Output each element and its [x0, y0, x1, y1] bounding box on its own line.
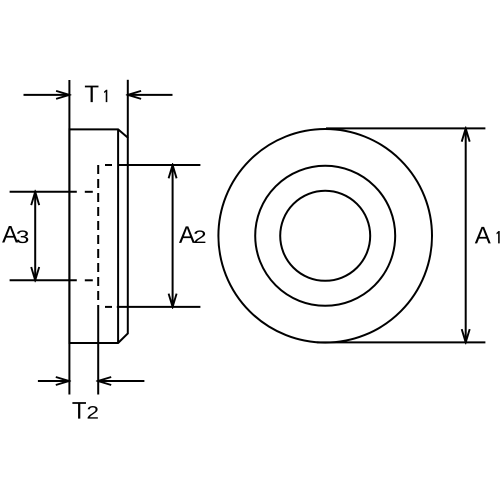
label A2 letter A [179, 226, 195, 243]
dimension A1 vertical double arrow [465, 128, 467, 342]
extension line A1 bottom [317, 341, 486, 343]
wire (left extension line x=69.4, T1 top + T2 bottom) [68, 80, 70, 395]
outer circle (A1) front view [218, 129, 432, 343]
label T2 letter T [72, 402, 86, 419]
dimension T1 right arrow [128, 94, 173, 96]
label T2 subscript 2 [88, 406, 98, 419]
hidden line A2 top dash [105, 164, 112, 166]
extension line A2 bottom (solid part) [117, 306, 201, 308]
label A3 subscript 3 [17, 230, 29, 243]
extension line A2 top (solid part) [118, 164, 200, 166]
extension line A1 top [326, 127, 485, 129]
dimension T1 left arrow [24, 94, 70, 96]
dimension T2 right arrow [98, 380, 144, 382]
dimension T2 left arrow [38, 380, 69, 382]
extension line A3 bottom (solid part) [10, 279, 77, 281]
hidden line A3 bottom dash [85, 279, 93, 281]
hidden line A3 top dash [85, 191, 93, 193]
label A2 subscript 2 [194, 230, 205, 243]
wire (T2 right extension line, solid part of x=98.2) [97, 305, 99, 395]
label T1 subscript 1 [104, 90, 107, 102]
dimension A2 vertical double arrow [172, 165, 174, 307]
extension line A3 top (solid part) [10, 191, 77, 193]
label A1 subscript 1 [497, 231, 500, 243]
label A1 letter A [475, 227, 491, 244]
body outline (side view silhouette with chamfered right corners) [69, 129, 127, 343]
wire (right extension line x=127.8 up to T1) [127, 80, 129, 138]
label A3 letter A [2, 226, 18, 243]
label T1 letter T [85, 86, 99, 103]
inner circle (A3) front view [280, 191, 370, 281]
hidden line (dashed vertical x=98.2) [97, 165, 99, 305]
wire (edge line between cylinder and chamfer, x=118) [117, 129, 119, 343]
hidden line A2 bottom dash [105, 306, 112, 308]
dimension A3 vertical double arrow [34, 192, 36, 280]
middle circle (A2) front view [255, 166, 395, 306]
